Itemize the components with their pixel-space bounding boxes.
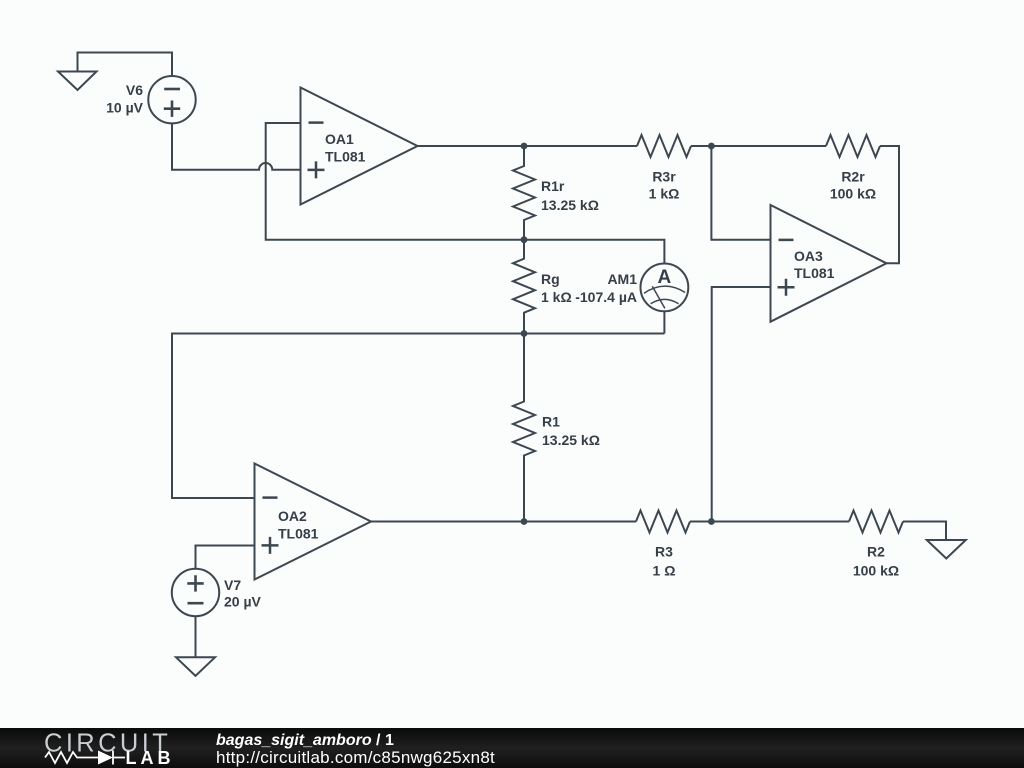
- svg-text:bagas_sigit_amboro / 1: bagas_sigit_amboro / 1: [216, 732, 394, 749]
- ground symbol (below V7): [176, 657, 215, 676]
- resistor R3r: [637, 135, 691, 157]
- svg-text:LAB: LAB: [126, 748, 175, 768]
- svg-text:R1: R1: [542, 414, 560, 430]
- resistor R3: [636, 511, 690, 533]
- op-amp OA2: [255, 464, 372, 580]
- svg-text:-107.4 µA: -107.4 µA: [575, 289, 637, 305]
- wire OA1 inverting input to node between R1r and Rg, continuing to AM1 top: [266, 123, 665, 264]
- svg-text:1 Ω: 1 Ω: [653, 563, 676, 579]
- svg-text:TL081: TL081: [278, 526, 319, 542]
- op-amp OA1: [301, 88, 418, 205]
- resistor R1r: [513, 146, 535, 240]
- svg-text:OA1: OA1: [325, 131, 354, 147]
- junction: OA2 output / R1 bottom: [521, 518, 528, 525]
- resistor R1: [513, 334, 535, 522]
- voltage source V7: [172, 569, 219, 616]
- ground symbol (top-left, at V6): [58, 72, 97, 91]
- resistor R2: [849, 511, 903, 533]
- wire OA2 non-inverting input to V7 plus terminal: [196, 546, 255, 569]
- svg-text:10 µV: 10 µV: [106, 100, 144, 116]
- svg-text:20 µV: 20 µV: [224, 594, 262, 610]
- junction: Rg bottom / R1 top rail: [521, 330, 528, 337]
- wire V6 plus terminal to OA1 non-inverting input (hops over feedback wire): [172, 123, 301, 169]
- resistor R2r: [826, 135, 880, 157]
- svg-text:1 kΩ: 1 kΩ: [649, 186, 680, 202]
- CircuitLab logo diode glyph: [98, 751, 125, 765]
- svg-text:R2r: R2r: [841, 169, 865, 185]
- wire node A down to OA3 inverting input: [711, 146, 770, 240]
- ammeter AM1: [641, 264, 689, 312]
- svg-text:1 kΩ: 1 kΩ: [541, 289, 572, 305]
- wire lower rail (Rg bottom node) to OA2 inverting input: [172, 334, 664, 499]
- junction: node A (R3r / R2r / OA3 inverting branch): [708, 143, 715, 150]
- svg-text:AM1: AM1: [607, 271, 637, 287]
- svg-text:R3r: R3r: [652, 169, 676, 185]
- junction: node B (R3 / R2 / OA3 non-inverting branch): [708, 518, 715, 525]
- footer bar: [0, 728, 1024, 768]
- wire OA1 output to R3r, node A, R2r and OA3 output feedback: [418, 146, 900, 263]
- wire V6 negative terminal to ground: [78, 53, 173, 77]
- svg-text:13.25 kΩ: 13.25 kΩ: [541, 197, 599, 213]
- junction: R1r bottom / Rg top / OA1 feedback: [521, 236, 528, 243]
- resistor Rg: [513, 240, 535, 334]
- svg-text:100 kΩ: 100 kΩ: [853, 563, 899, 579]
- svg-text:100 kΩ: 100 kΩ: [830, 186, 876, 202]
- svg-text:R2: R2: [867, 544, 885, 560]
- junction: OA1 output / R1r top: [521, 143, 528, 150]
- svg-text:R3: R3: [655, 544, 673, 560]
- voltage source V6: [148, 76, 195, 123]
- svg-text:TL081: TL081: [794, 265, 835, 281]
- svg-text:OA2: OA2: [278, 508, 307, 524]
- svg-text:A: A: [658, 267, 672, 288]
- ground symbol (right of R2): [927, 540, 966, 559]
- wire AM1 bottom to lower rail: [663, 311, 665, 333]
- svg-text:TL081: TL081: [325, 149, 366, 165]
- svg-text:http://circuitlab.com/c85nwg62: http://circuitlab.com/c85nwg625xn8t: [216, 748, 495, 767]
- CircuitLab logo resistor zigzag glyph: [45, 752, 98, 763]
- svg-text:13.25 kΩ: 13.25 kΩ: [542, 432, 600, 448]
- op-amp OA3: [771, 205, 887, 322]
- svg-text:R1r: R1r: [541, 178, 565, 194]
- wire OA2 output to R3, node B, R2 and right ground: [371, 522, 946, 541]
- svg-text:V7: V7: [224, 577, 241, 593]
- wire V7 minus terminal to ground: [195, 616, 197, 657]
- svg-text:Rg: Rg: [541, 271, 560, 287]
- wire OA3 non-inverting input down to node B: [712, 287, 771, 522]
- svg-text:OA3: OA3: [794, 248, 823, 264]
- svg-text:V6: V6: [126, 82, 143, 98]
